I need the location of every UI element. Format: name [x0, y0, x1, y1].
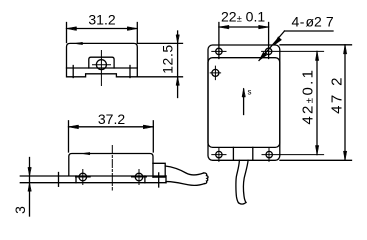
dim 47.2 extension bottom (body bottom edge extended) [280, 159, 352, 161]
dim 22 arrow left [219, 25, 229, 28]
dim 3 arrow top [28, 167, 31, 176]
hole bottom-right crosshair (horizontal doubles as 42 dim extension) [262, 148, 324, 162]
dim 12.5 dimension line [177, 31, 179, 98]
side view cable frayed end [204, 173, 209, 184]
front view outer body [208, 45, 280, 160]
dim 47.2 dimension line [344, 45, 346, 161]
extra pilot hole [212, 69, 219, 76]
top view slot tick left [72, 66, 74, 78]
hole top-right crosshair (horizontal doubles as 42 dim extension) [262, 50, 324, 52]
svg-text:42±0.1: 42±0.1 [300, 68, 317, 125]
side view flange top line [20, 175, 166, 177]
svg-text:37.2: 37.2 [98, 111, 125, 127]
dim 47.2 arrow top [343, 45, 346, 54]
hole bottom-right [266, 151, 272, 157]
side view body [69, 154, 153, 176]
side view connector block [153, 163, 165, 177]
cable exit block verticals [233, 147, 252, 160]
svg-text:22± 0.1: 22± 0.1 [221, 9, 265, 25]
dim 3 arrow bottom [28, 183, 31, 192]
side view clamp left tick [144, 176, 146, 183]
side view screw right crosshair [132, 170, 147, 185]
dim 22 dimension line [219, 26, 269, 28]
operation direction arrow [243, 89, 245, 115]
side view flange bottom line [20, 182, 166, 184]
side view direction arrow on top edge [82, 152, 90, 154]
dim 42 dimension line [316, 51, 318, 154]
side view flange tick x60 [58, 173, 60, 187]
dim 22 extension left (through top-left hole) [218, 23, 220, 59]
label leader arrowhead upper (at body top edge) [274, 37, 282, 45]
dim 31.2 arrow right [127, 27, 137, 31]
dim 37.2 arrow right [143, 125, 153, 129]
top view screw crosshair horizontal [93, 64, 111, 66]
svg-text:3: 3 [12, 206, 28, 214]
label 4-d2.7 leader underline [285, 30, 334, 32]
cable below right line [243, 160, 248, 202]
top view screw circle [96, 60, 106, 70]
side view screw left crosshair [76, 170, 91, 185]
dim 12.5 extension line bottom [137, 76, 182, 78]
svg-text:4-ø27: 4-ø27 [292, 14, 334, 30]
hole top-left crosshair [212, 50, 226, 52]
cable below left line [236, 160, 239, 203]
top view slot tick right [129, 66, 131, 78]
top view flange line [67, 67, 138, 69]
side view clamp cross tick [158, 173, 160, 187]
dim 12.5 extension line top [137, 42, 182, 44]
dim 42 arrow bottom [315, 146, 318, 155]
dim 37.2 arrow left [69, 125, 79, 129]
dim 37.2 extension line right [152, 121, 154, 152]
side view cable lower line [166, 182, 205, 186]
dim 42 arrow top [315, 51, 318, 60]
svg-text:12.5: 12.5 [160, 44, 176, 74]
dim 31.2 extension line left [66, 23, 68, 43]
dim 31.2 dimension line [67, 28, 138, 30]
side view cable upper line [165, 166, 203, 175]
cable below end cap [239, 203, 247, 205]
front view cover lines [208, 58, 280, 148]
side view screw left circle [79, 173, 87, 181]
dim 22 arrow right [259, 25, 269, 28]
svg-text:s: s [248, 88, 252, 97]
extra pilot hole crosshair [210, 66, 220, 80]
dim 31.2 extension line right [136, 23, 138, 43]
side view flange right end cap [165, 176, 167, 183]
dim 31.2 arrow left [67, 27, 77, 31]
side view body right edge [152, 163, 154, 177]
label 4-d2.7 leader diagonal [259, 31, 285, 61]
hole bottom-left crosshair [212, 148, 226, 162]
dim 47.2 extension top (body top edge extended) [280, 44, 352, 46]
hole top-left [216, 48, 222, 54]
svg-text:31.2: 31.2 [88, 12, 115, 28]
dim 3 dimension line [29, 158, 31, 217]
hole bottom-left [216, 151, 222, 157]
top view body outline with notched bottom [67, 43, 138, 76]
svg-text:47 2: 47 2 [329, 75, 346, 114]
dim 22 extension right (through top-right hole) [268, 23, 270, 59]
side view screw right circle [135, 173, 143, 181]
dim 47.2 arrow bottom [343, 151, 346, 160]
side view centerline [111, 146, 113, 191]
label leader arrowhead lower (at cover line) [259, 52, 267, 60]
dim 37.2 dimension line [69, 126, 154, 128]
top view direction arrow on top edge [75, 42, 83, 44]
side view flange step tick x76 [75, 176, 77, 183]
top view screw crosshair vertical centerline [100, 51, 102, 86]
top view inner boss rectangle [89, 57, 114, 68]
hole top-right [265, 48, 271, 54]
dim 37.2 extension line left [68, 121, 70, 152]
dim 12.5 arrow top [176, 35, 179, 44]
dim 12.5 arrow bottom [176, 77, 179, 86]
